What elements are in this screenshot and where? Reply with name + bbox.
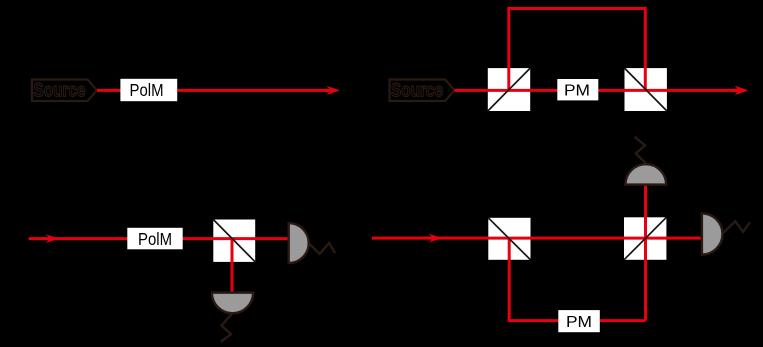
wire input beam (c) (29, 237, 289, 240)
squiggle of D3 (d) (635, 137, 646, 164)
svg-text:PM: PM (566, 314, 592, 331)
wire upper interferometer arm (b) (509, 9, 646, 91)
diagonal of BS2 (d) (624, 217, 666, 259)
modulator PM (b) (557, 79, 598, 100)
wire main beam (b) (455, 89, 739, 92)
diagonal of BS2 (b) (625, 68, 667, 111)
arrowhead output a (324, 86, 340, 95)
modulator PolM (a) (120, 79, 177, 101)
detector D2 down-facing (c) (212, 293, 253, 314)
wire input beam (d) (372, 237, 702, 240)
wire right vertical through BS2 to detector (d) (644, 185, 647, 321)
arrowhead output b (732, 86, 748, 96)
svg-text:PolM: PolM (130, 80, 164, 100)
beam splitter BS1 body (d) (488, 218, 530, 260)
wire PolM to output arrow (176, 89, 330, 92)
wire down to detector (c) (231, 239, 234, 293)
diagonal of BS1 (d) (488, 218, 530, 260)
detector D1 right-facing (c) (289, 223, 309, 263)
squiggle of D1 (c) (309, 243, 335, 254)
svg-text:Source: Source (391, 80, 443, 101)
beam splitter BS2 body (d) (624, 217, 666, 259)
beam splitter BS2 body (b) (625, 68, 667, 111)
wire lower interferometer arm (d) (509, 238, 645, 321)
beam splitter BS1 body (b) (488, 68, 530, 111)
arrowhead mid input (d) (426, 234, 442, 243)
svg-text:Source: Source (34, 80, 86, 101)
diagonal of BS (c) (213, 220, 255, 262)
detector D4 right-facing (d) (702, 213, 723, 254)
wire source to PolM (97, 89, 121, 92)
beam splitter BS body (c) (213, 220, 255, 262)
diagonal of BS1 (b) (488, 68, 530, 111)
source S2 (390, 80, 455, 102)
svg-text:PM: PM (564, 83, 590, 100)
modulator PolM (c) (127, 228, 182, 250)
source S1 (32, 80, 97, 102)
squiggle of D2 (c) (221, 314, 232, 342)
squiggle of D4 (d) (723, 221, 751, 233)
arrowhead mid input (c) (43, 234, 59, 243)
svg-text:PolM: PolM (138, 229, 172, 249)
modulator PM (d) (558, 310, 600, 332)
detector D3 up-facing (d) (625, 164, 666, 184)
